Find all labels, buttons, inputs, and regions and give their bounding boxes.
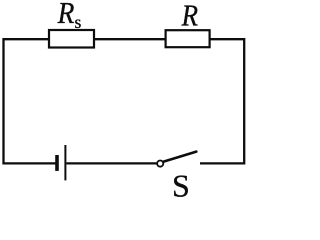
wire: between resistors: [95, 38, 167, 40]
battery cell: short thick negative plate: [55, 155, 59, 171]
svg-text:R: R: [57, 0, 75, 30]
wire: top-left + left side + bottom-left to battery: [4, 39, 57, 163]
switch S: lever arm: [163, 152, 196, 162]
wire: battery to switch: [67, 162, 157, 164]
svg-text:s: s: [75, 12, 82, 32]
battery cell: long thin positive plate: [64, 145, 66, 180]
svg-text:S: S: [172, 168, 190, 198]
wire: top-right + right side + bottom-right to switch: [200, 39, 244, 163]
resistor R: [166, 30, 210, 47]
svg-text:R: R: [181, 0, 199, 33]
switch S: hinge circle: [157, 161, 163, 167]
resistor Rs: [49, 30, 94, 48]
